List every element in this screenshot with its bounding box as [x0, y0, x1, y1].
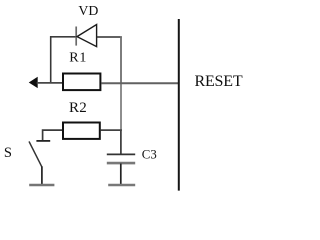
wire diode cathode to top-right corner [97, 36, 122, 38]
capacitor C3 bottom lead [120, 164, 122, 186]
svg-text:R2: R2 [69, 100, 87, 116]
RESET net vertical line [178, 19, 180, 191]
capacitor C3 bottom terminal bar [108, 184, 135, 187]
resistor R2 [63, 123, 100, 139]
wire top-left corner vertical [50, 36, 52, 83]
svg-text:RESET: RESET [195, 73, 243, 90]
wire middle vertical mid (R1 wire to R2 wire) [120, 83, 122, 130]
diode VD triangle [77, 25, 97, 47]
switch S bottom terminal bar [29, 184, 54, 187]
resistor R1 [63, 74, 100, 91]
capacitor C3 bottom plate [107, 162, 135, 165]
capacitor C3 top plate [107, 153, 135, 155]
wire middle vertical lower (R2 wire to capacitor) [120, 130, 122, 154]
wire R2 to middle vertical [101, 129, 122, 131]
svg-text:C3: C3 [142, 147, 157, 161]
switch S bottom lead [41, 166, 43, 185]
wire diode anode (left horizontal) [50, 36, 77, 38]
switch S lever [29, 141, 42, 167]
wire R1 to RESET line [101, 82, 178, 84]
diode VD cathode bar [75, 27, 77, 46]
wire arrow to R1 [37, 82, 63, 84]
switch S fixed contact bar [36, 140, 50, 142]
svg-text:VD: VD [78, 3, 98, 18]
arrow output (points left) [29, 77, 37, 87]
svg-text:R1: R1 [69, 51, 87, 66]
wire middle vertical upper (diode corner to R1 wire) [120, 36, 122, 83]
wire switch stub and R2 left wire [43, 130, 63, 140]
svg-text:S: S [4, 145, 12, 161]
